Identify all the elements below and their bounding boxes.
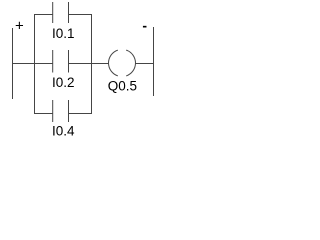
wire left branch vertical bbox=[34, 14, 36, 114]
right power rail (-) bbox=[153, 27, 155, 96]
wire right branch vertical bbox=[91, 14, 93, 114]
wire coil to right rail bbox=[135, 63, 154, 65]
svg-text:I0.4: I0.4 bbox=[52, 124, 75, 139]
svg-text:I0.1: I0.1 bbox=[52, 26, 75, 41]
svg-text:-: - bbox=[142, 18, 147, 34]
contact I0.1 bars bbox=[52, 2, 54, 23]
wire I0.4 rung right segment bbox=[69, 113, 92, 115]
wire I0.1 rung left segment bbox=[34, 14, 53, 16]
wire main rung left: rail to contact I0.2 bbox=[12, 63, 53, 65]
contact I0.2 bars bbox=[52, 50, 54, 73]
svg-text:+: + bbox=[15, 17, 24, 34]
wire I0.4 rung left segment bbox=[34, 113, 53, 115]
contact I0.4 bars bbox=[52, 100, 54, 122]
coil Q0.5 right arc bbox=[126, 50, 135, 76]
wire I0.1 rung right segment bbox=[69, 14, 92, 16]
coil Q0.5 left arc bbox=[109, 50, 118, 76]
svg-text:I0.2: I0.2 bbox=[52, 75, 75, 90]
left power rail (+) bbox=[12, 28, 14, 99]
svg-text:Q0.5: Q0.5 bbox=[108, 79, 137, 94]
wire main rung right of I0.2 to coil bbox=[69, 63, 109, 65]
